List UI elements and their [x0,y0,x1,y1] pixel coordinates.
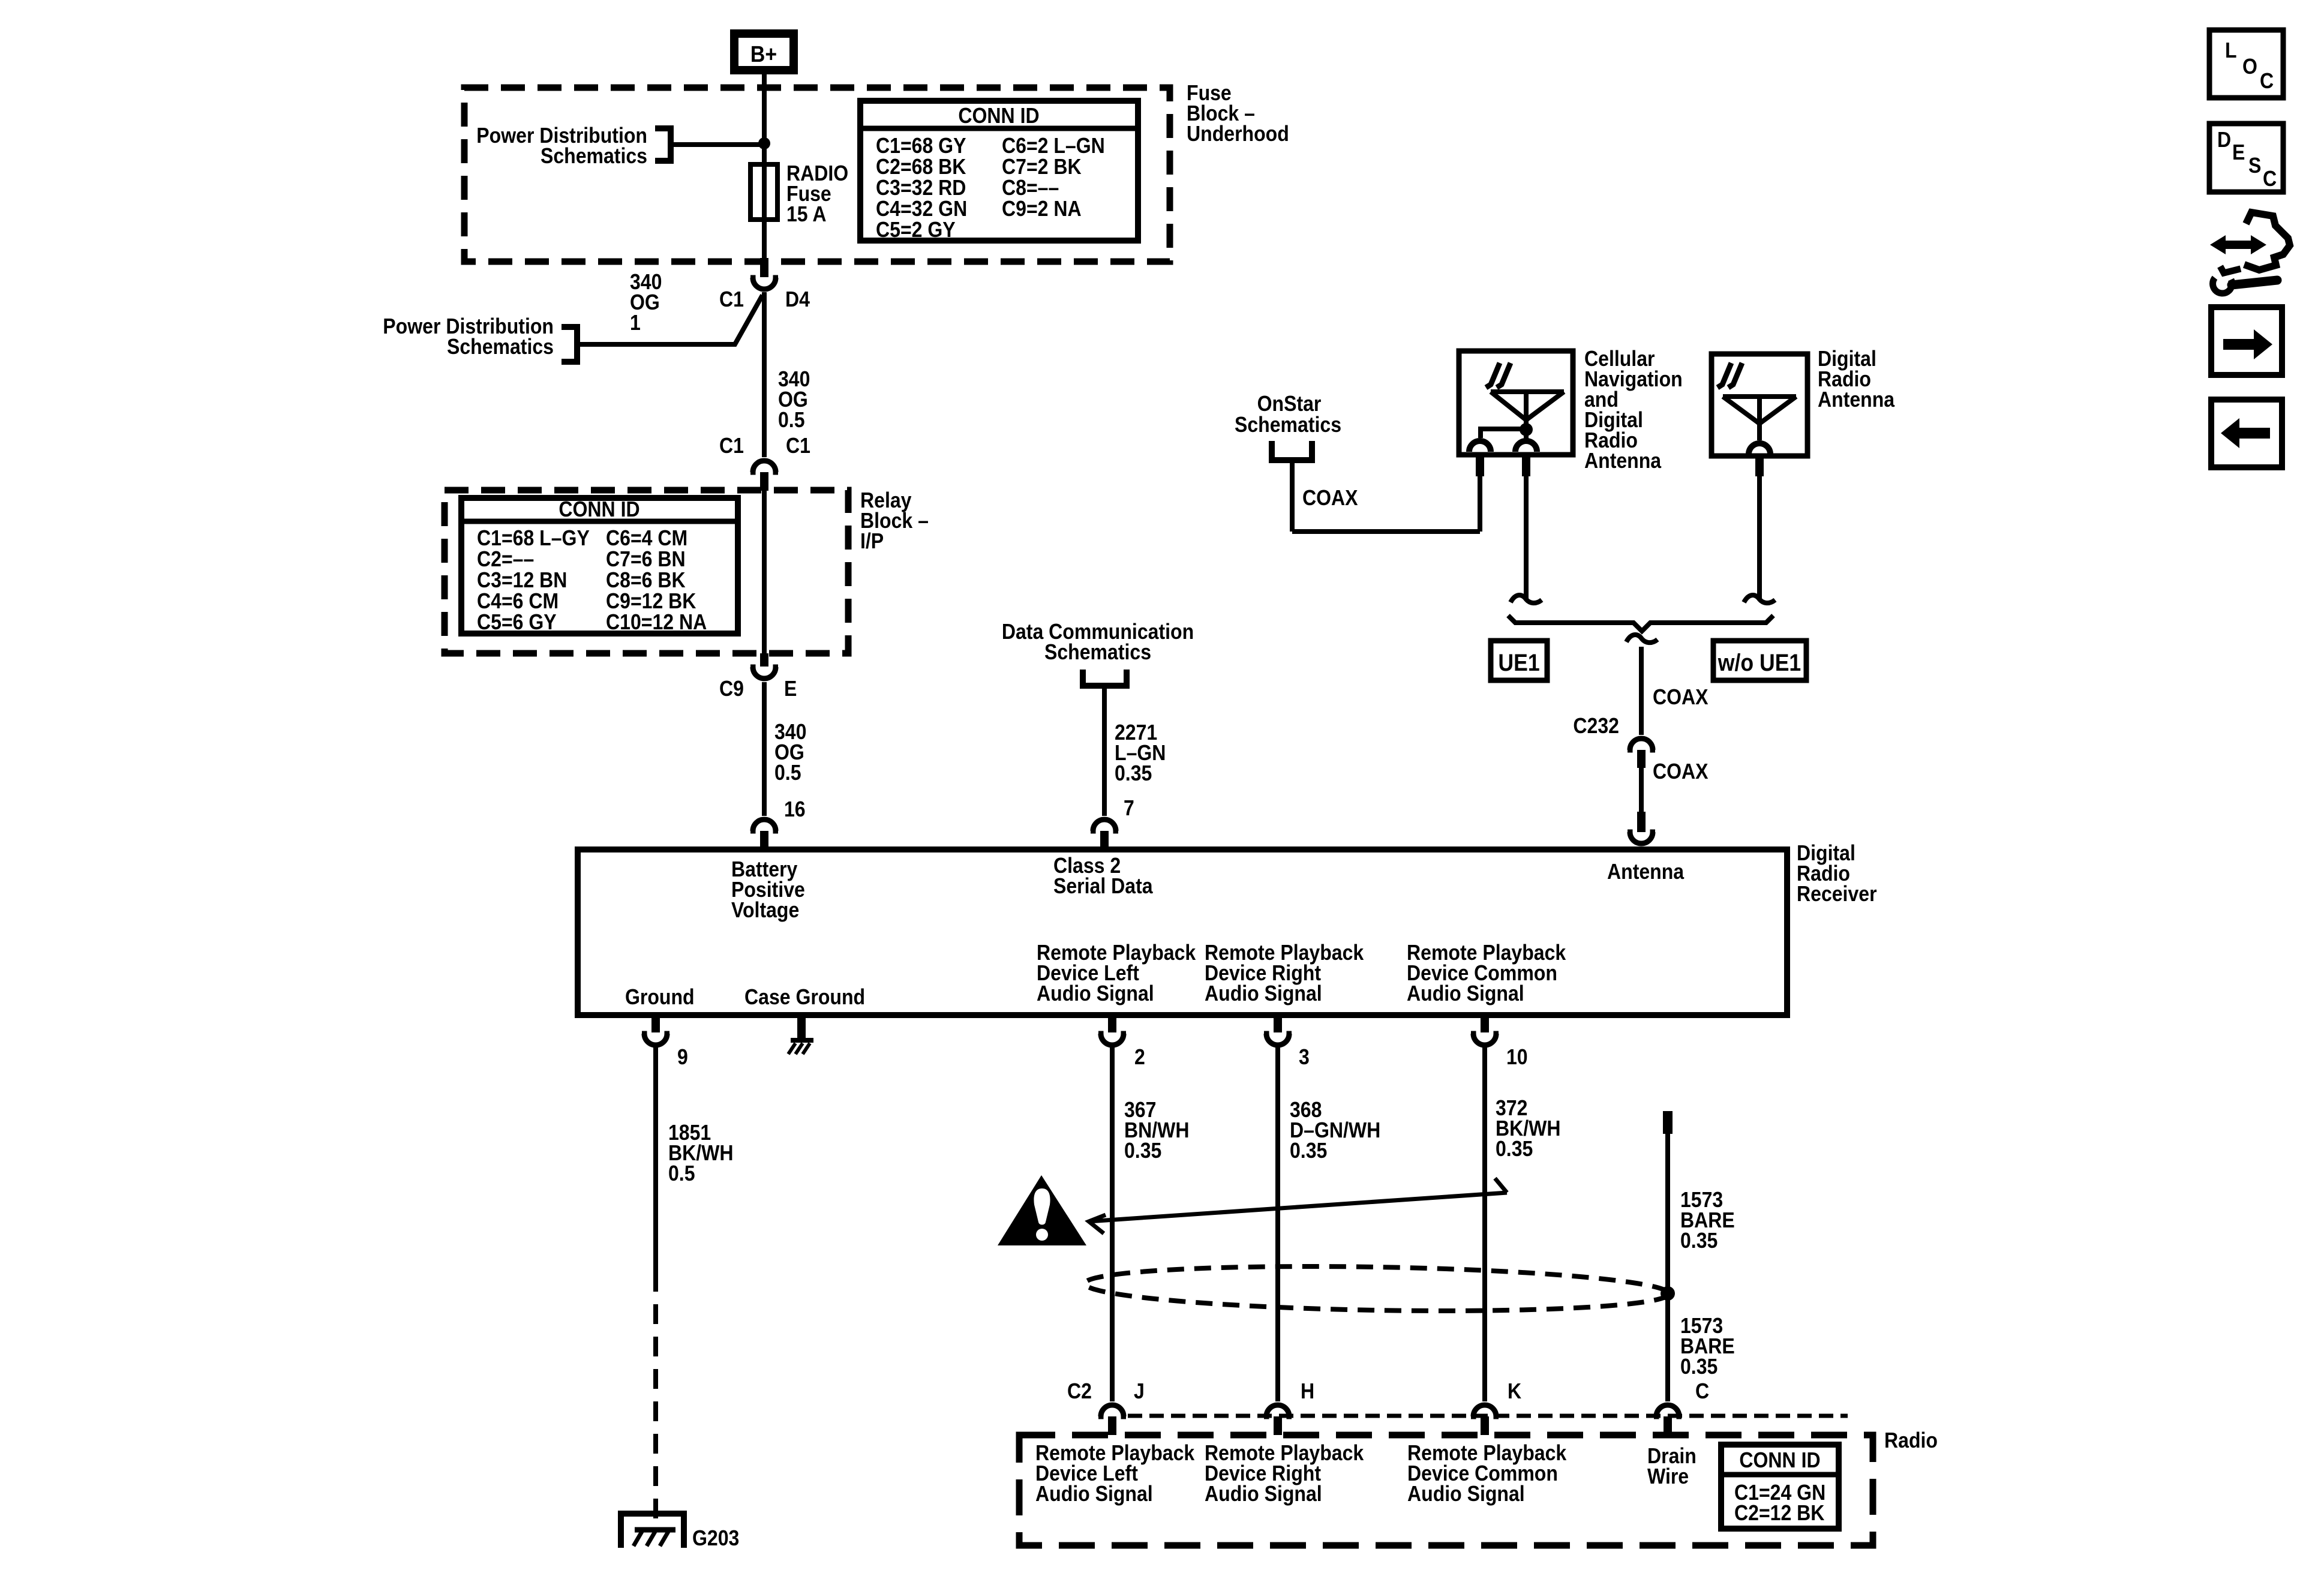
svg-text:C1: C1 [786,434,810,458]
svg-text:w/o UE1: w/o UE1 [1718,650,1801,676]
svg-text:15 A: 15 A [786,202,826,226]
svg-text:Antenna: Antenna [1584,449,1662,473]
svg-text:Receiver: Receiver [1797,882,1877,906]
svg-text:Voltage: Voltage [731,898,799,922]
svg-text:C: C [2263,167,2277,191]
svg-text:16: 16 [784,797,806,821]
svg-text:J: J [1134,1379,1145,1403]
svg-text:0.35: 0.35 [1290,1139,1327,1163]
svg-text:Serial Data: Serial Data [1053,874,1154,898]
svg-text:D4: D4 [785,287,810,311]
svg-text:7: 7 [1124,796,1134,820]
svg-text:C5=2 GY: C5=2 GY [876,218,956,242]
svg-text:Antenna: Antenna [1818,388,1895,412]
svg-text:10: 10 [1506,1045,1528,1069]
svg-text:Schematics: Schematics [1044,640,1151,664]
svg-text:C10=12 NA: C10=12 NA [606,610,707,634]
svg-text:Audio Signal: Audio Signal [1035,1482,1153,1506]
svg-text:C: C [1695,1379,1709,1403]
svg-text:D: D [2217,128,2231,152]
svg-text:UE1: UE1 [1498,650,1539,676]
svg-text:COAX: COAX [1653,760,1709,784]
svg-text:G203: G203 [692,1526,739,1550]
svg-text:0.35: 0.35 [1115,761,1152,785]
svg-text:B+: B+ [750,41,777,67]
svg-text:1: 1 [630,311,641,335]
svg-text:3: 3 [1299,1045,1310,1069]
svg-text:S: S [2248,154,2261,178]
svg-text:0.5: 0.5 [774,761,801,785]
svg-text:CONN ID: CONN ID [958,104,1039,128]
svg-text:0.35: 0.35 [1680,1229,1718,1253]
svg-text:COAX: COAX [1302,486,1358,510]
svg-text:Wire: Wire [1647,1464,1689,1488]
svg-text:C5=6 GY: C5=6 GY [477,610,557,634]
svg-text:C9=2 NA: C9=2 NA [1002,197,1082,221]
svg-text:Audio Signal: Audio Signal [1407,1482,1525,1506]
svg-text:Radio: Radio [1884,1428,1938,1452]
svg-text:L: L [2225,38,2237,62]
svg-text:Schematics: Schematics [1235,413,1341,437]
svg-text:E: E [784,677,797,701]
svg-text:0.35: 0.35 [1124,1139,1161,1163]
svg-text:2: 2 [1134,1045,1145,1069]
svg-text:9: 9 [677,1045,688,1069]
svg-text:O: O [2242,55,2257,79]
svg-text:0.35: 0.35 [1680,1355,1718,1379]
svg-text:Schematics: Schematics [447,335,554,359]
svg-text:Antenna: Antenna [1607,860,1685,884]
svg-text:0.35: 0.35 [1496,1137,1533,1161]
svg-text:C1: C1 [719,287,744,311]
svg-text:CONN ID: CONN ID [559,497,639,521]
svg-text:C1: C1 [719,434,744,458]
svg-text:K: K [1508,1379,1522,1403]
svg-text:0.5: 0.5 [778,408,805,432]
svg-text:Audio Signal: Audio Signal [1205,981,1322,1005]
svg-text:C: C [2260,69,2274,93]
svg-text:H: H [1301,1379,1314,1403]
svg-text:E: E [2232,140,2245,164]
svg-text:Audio Signal: Audio Signal [1407,981,1524,1005]
svg-text:Ground: Ground [625,985,695,1009]
svg-text:Underhood: Underhood [1187,122,1289,146]
svg-text:COAX: COAX [1653,685,1709,709]
svg-text:Schematics: Schematics [541,144,647,168]
svg-text:I/P: I/P [860,529,884,553]
svg-text:C9: C9 [719,677,744,701]
svg-text:CONN ID: CONN ID [1739,1448,1820,1472]
svg-text:0.5: 0.5 [668,1161,695,1185]
svg-text:Case Ground: Case Ground [744,985,865,1009]
svg-text:Audio Signal: Audio Signal [1205,1482,1322,1506]
svg-text:C2=12 BK: C2=12 BK [1734,1501,1825,1525]
svg-text:C2: C2 [1067,1379,1092,1403]
svg-text:C232: C232 [1573,714,1619,738]
svg-text:Audio Signal: Audio Signal [1037,981,1154,1005]
